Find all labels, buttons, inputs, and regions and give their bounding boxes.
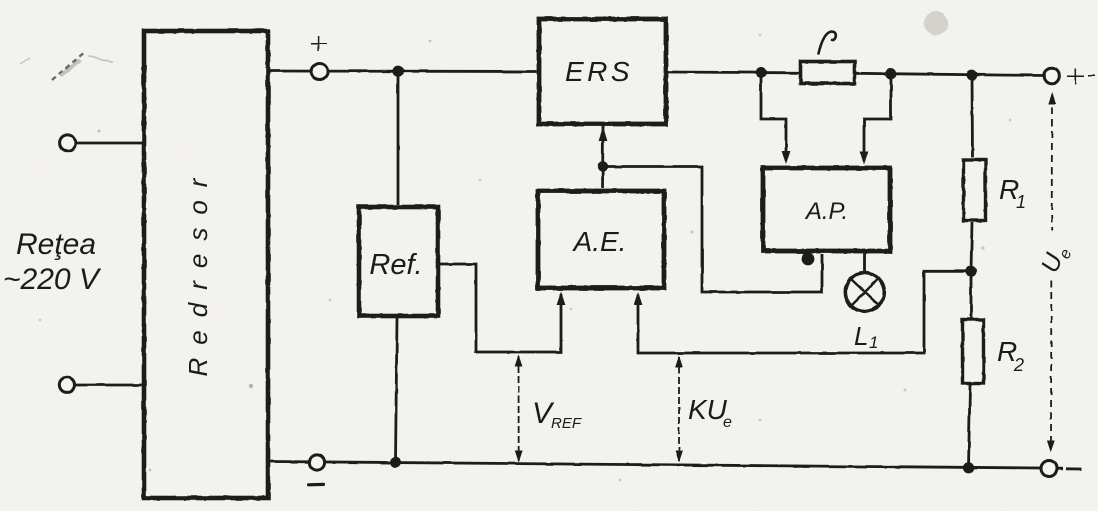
terminal + rail xyxy=(312,64,328,80)
blob node A.P. bottom xyxy=(802,253,815,266)
wire Ref bottom to bottom rail xyxy=(396,318,398,462)
junction node after r xyxy=(885,68,896,79)
wire bottom rail xyxy=(270,462,1041,469)
svg-text:Redresor: Redresor xyxy=(183,166,213,377)
polarity + top left xyxy=(311,36,327,52)
paper speckles xyxy=(39,34,1012,482)
wire top rail: ERS to r xyxy=(668,71,799,75)
terminal output + xyxy=(1044,68,1060,84)
svg-text:REF: REF xyxy=(551,415,582,432)
svg-text:Reţea: Reţea xyxy=(16,228,96,261)
block Ref xyxy=(359,207,438,316)
block Redresor xyxy=(144,31,268,498)
polarity + top right xyxy=(1067,68,1095,85)
wire left sampling branch around r xyxy=(761,72,786,161)
label r xyxy=(819,32,836,54)
wire bottom-right stub xyxy=(1058,467,1083,470)
wire top rail: r to output terminal xyxy=(856,73,1043,75)
svg-text:L: L xyxy=(854,321,868,351)
terminal output - xyxy=(1041,461,1057,477)
resistor R2 xyxy=(963,320,984,384)
svg-text:1: 1 xyxy=(1016,192,1026,212)
svg-text:ERS: ERS xyxy=(565,56,633,87)
arrowhead into A.P. top left xyxy=(782,151,791,165)
polarity - bottom left xyxy=(307,483,325,487)
smudge top-right gray blob xyxy=(924,11,948,35)
block A.E. xyxy=(538,191,664,288)
resistor r xyxy=(801,62,855,84)
dimension arrow Vref xyxy=(515,355,523,463)
junction node divider xyxy=(965,266,976,277)
lamp L1 xyxy=(845,273,884,312)
block A.P. xyxy=(763,168,890,251)
junction node before r xyxy=(756,67,767,78)
block ERS xyxy=(539,19,666,124)
wire Ref output to A.E. xyxy=(440,264,561,352)
svg-text:~220 V: ~220 V xyxy=(3,263,102,296)
terminal - rail xyxy=(309,455,324,470)
arrowhead into ERS bottom xyxy=(599,127,608,141)
junction node bottom rail left xyxy=(390,457,401,468)
junction node top rail xyxy=(392,66,403,77)
wire feedback from divider node xyxy=(638,271,971,353)
junction node above A.E. xyxy=(597,161,607,171)
wire vertical node + rail to Ref top xyxy=(397,71,400,205)
terminal input bottom xyxy=(59,377,74,392)
svg-text:e: e xyxy=(723,414,732,431)
wire divider node to R2 top xyxy=(970,271,973,318)
wire input top xyxy=(76,142,142,145)
wire node above A.E. going right xyxy=(603,167,823,293)
svg-text:A.E.: A.E. xyxy=(572,226,627,257)
arrowhead into A.P. top right xyxy=(860,151,869,165)
terminal input top xyxy=(60,135,76,151)
svg-text:1: 1 xyxy=(869,333,878,352)
svg-text:KU: KU xyxy=(688,394,728,425)
dimension arrow KUe xyxy=(675,356,683,463)
svg-text:2: 2 xyxy=(1013,355,1024,375)
junction node R1 top xyxy=(967,70,978,81)
arrowhead into A.E. bottom right xyxy=(634,292,643,306)
wire output node to R1 xyxy=(971,75,974,158)
arrowhead into A.E. bottom left xyxy=(557,292,566,306)
junction node bottom rail right xyxy=(963,462,974,473)
wire R1 bottom to divider node xyxy=(971,222,972,271)
wire R2 bottom to bottom rail xyxy=(969,385,971,468)
smudge top-left diagonal pencil mark xyxy=(52,51,86,80)
wire input bottom xyxy=(75,384,142,387)
svg-text:Ref.: Ref. xyxy=(369,249,422,281)
label Ue (rotated) xyxy=(1036,241,1076,278)
resistor R1 xyxy=(964,160,986,221)
svg-text:A.P.: A.P. xyxy=(804,198,848,225)
wire right sampling branch around r xyxy=(864,74,891,161)
wire ERS bottom to A.E. top xyxy=(601,127,604,188)
dimension arrow Ue xyxy=(1047,92,1056,453)
wire top rail: redresor to ERS xyxy=(270,70,537,73)
wire A.P. bottom to lamp xyxy=(863,254,866,272)
